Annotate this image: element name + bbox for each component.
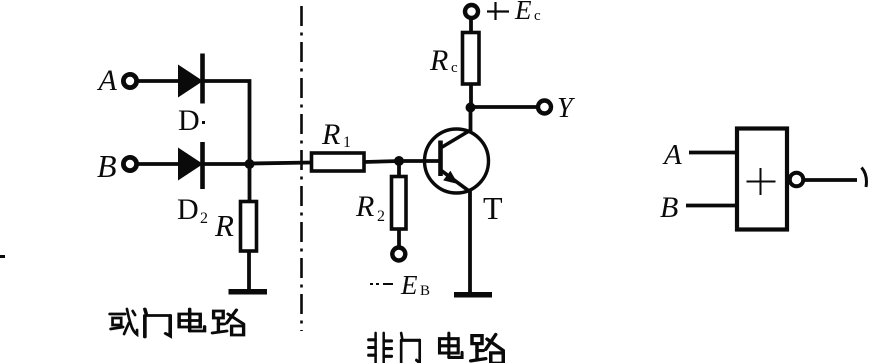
svg-text:R: R [214, 208, 234, 243]
wire R to ground [247, 251, 251, 291]
wire D1 cathode to node (right then down) [202, 81, 250, 164]
wire node down to resistor R [248, 164, 252, 203]
svg-text:B: B [660, 191, 678, 224]
wire B terminal to diode D2 [137, 162, 179, 166]
svg-text:c: c [534, 8, 541, 24]
inversion bubble [790, 173, 804, 187]
input terminal A [123, 74, 136, 87]
input terminal B [123, 157, 136, 170]
svg-text:1: 1 [343, 134, 351, 151]
svg-text:B: B [97, 148, 117, 184]
resistor R [241, 202, 257, 252]
wire R2 to -EB terminal [397, 229, 401, 247]
wire A input to gate box [689, 151, 738, 155]
diode D1 [178, 54, 203, 104]
stray mark (left edge) [0, 255, 5, 258]
wire base node to transistor base [399, 159, 441, 163]
svg-text:A: A [97, 64, 118, 97]
resistor Rc [463, 33, 480, 85]
wire Ec terminal to Rc [469, 18, 473, 34]
node junction of diodes [245, 159, 255, 169]
dashed divider line [300, 6, 303, 331]
svg-text:D: D [178, 104, 200, 137]
svg-text:R: R [429, 44, 448, 77]
wire collector node down to transistor [469, 108, 473, 133]
output wire of gate [804, 178, 857, 182]
svg-text:2: 2 [200, 210, 208, 227]
svg-text:D: D [177, 193, 199, 226]
wire node to output terminal Y [470, 105, 537, 109]
node collector/output junction [466, 103, 476, 113]
NOR gate box [737, 129, 787, 230]
svg-text:R: R [355, 190, 374, 223]
svg-text:B: B [420, 283, 430, 299]
svg-text:R: R [321, 118, 340, 151]
svg-text:E: E [400, 270, 418, 300]
wire R1 to base node [364, 161, 400, 162]
svg-text:c: c [451, 60, 458, 76]
svg-text:A: A [662, 139, 682, 171]
wire node to resistor R1 (crosses divider) [249, 163, 312, 164]
svg-text:2: 2 [377, 208, 385, 225]
diode D2 [178, 142, 203, 189]
caption 或门电路 (OR gate circuit) [110, 309, 244, 337]
wire Rc to collector node [469, 84, 473, 110]
label +Ec [487, 0, 541, 25]
svg-text:T: T [483, 190, 503, 226]
transistor T [425, 129, 489, 193]
resistor R2 [392, 177, 407, 230]
wire B input to gate box [686, 204, 738, 208]
caption 非门电路 (NOT gate circuit) [368, 333, 503, 363]
node base junction [394, 156, 404, 166]
ground (NOT circuit) [454, 292, 492, 298]
resistor R1 [312, 153, 365, 171]
partial label Y at right edge [862, 168, 867, 188]
terminal -EB [392, 248, 405, 261]
wire base node down to R2 [397, 161, 401, 178]
svg-text:E: E [514, 0, 532, 25]
wire emitter to ground [468, 189, 472, 293]
wire A terminal to diode D1 [137, 79, 179, 83]
label + (OR function inside box) [747, 168, 776, 195]
output terminal Y [538, 101, 551, 114]
ground (OR circuit) [229, 289, 268, 295]
terminal +Ec [465, 5, 478, 18]
label -EB [370, 270, 430, 300]
wire D2 to node [202, 162, 252, 166]
